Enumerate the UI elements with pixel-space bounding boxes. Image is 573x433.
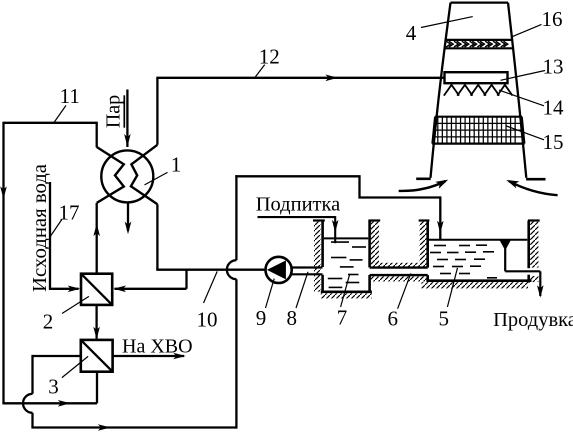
line hop over bottom pipe	[23, 394, 33, 413]
riser hop over suction pipe	[227, 260, 237, 279]
label Подпитка (makeup)	[256, 194, 341, 216]
label 17 leader	[50, 220, 62, 238]
heat exchanger U1 (boiler 1) circle	[101, 150, 153, 202]
label 7	[337, 305, 348, 329]
svg-text:10: 10	[197, 308, 218, 332]
pump 9 impeller triangle	[267, 260, 286, 279]
svg-text:13: 13	[543, 55, 564, 79]
pipe filter 3 left outlet	[33, 355, 81, 394]
label 16 leader	[512, 24, 542, 37]
label 2 leader	[62, 296, 89, 313]
label На ХВО (to water treatment)	[122, 335, 193, 357]
pipe 11 horizontal	[4, 122, 97, 124]
pipe 11 corner riser	[96, 122, 98, 148]
label 6 leader	[398, 274, 411, 309]
label 6	[388, 307, 399, 331]
tank 5 water dashes	[430, 245, 497, 278]
label 12	[259, 44, 280, 68]
label 5 leader	[447, 268, 457, 307]
pipe riser to line 12	[156, 78, 158, 145]
pipe tower basin run	[235, 176, 440, 197]
svg-text:Исходная вода: Исходная вода	[29, 164, 51, 292]
pipe На ХВО with arrow	[113, 353, 186, 360]
svg-text:2: 2	[43, 310, 54, 334]
pipe bottom run to filter 3	[2, 372, 97, 407]
label 7 leader	[341, 274, 350, 307]
label 13 leader	[501, 71, 546, 81]
pump suction pipe 10	[156, 269, 265, 271]
tank 7 right wall	[368, 221, 380, 292]
riser pipe to basin upper	[235, 175, 237, 260]
pipe to bottom run	[31, 413, 33, 428]
label Исходная вода	[29, 164, 51, 292]
label 9	[256, 306, 267, 330]
svg-text:3: 3	[48, 375, 59, 399]
pipe 8 (pump discharge, double line)	[292, 268, 323, 275]
svg-text:9: 9	[256, 306, 267, 330]
svg-text:5: 5	[438, 306, 449, 330]
svg-text:На ХВО: На ХВО	[122, 335, 193, 357]
label 1 leader	[145, 172, 168, 185]
label 14	[543, 96, 565, 120]
bottom pipe to riser	[31, 424, 236, 431]
pipe drop into tank 5 with arrow	[437, 196, 444, 239]
svg-text:6: 6	[388, 307, 399, 331]
filter F3 (square with diagonal)	[81, 340, 113, 372]
fill layer 15 (grid band)	[432, 117, 525, 144]
heat exchanger 1 left coil	[97, 147, 124, 203]
pump 9 circle	[266, 257, 292, 283]
branch tee to filter 2	[113, 270, 186, 292]
tank 5 left wall	[419, 221, 430, 282]
svg-text:1: 1	[171, 153, 182, 177]
svg-text:17: 17	[59, 201, 80, 225]
drift eliminator 16 (chevron band)	[444, 40, 513, 48]
label 8 leader	[296, 272, 308, 308]
label 15 leader	[506, 126, 544, 140]
pipe from heat exchanger SE	[156, 204, 158, 269]
svg-text:4: 4	[406, 21, 417, 45]
water distribution box 13	[445, 72, 508, 83]
tank 5 floor	[422, 281, 532, 289]
label 15	[543, 130, 564, 154]
label 13	[543, 55, 564, 79]
label 2	[43, 310, 54, 334]
pipe 11 left drop with arrow	[0, 122, 7, 404]
label 1	[171, 153, 182, 177]
svg-text:8: 8	[286, 306, 297, 330]
label 17	[59, 201, 80, 225]
svg-text:11: 11	[60, 84, 80, 108]
cooling tower right foot	[526, 178, 545, 181]
pipe filter 2 to heat exchanger (up arrow)	[93, 203, 100, 274]
source water pipe (Исходная вода)	[49, 182, 80, 292]
label 8	[286, 306, 297, 330]
pipe 12 (hot water to tower)	[156, 75, 444, 82]
channel 6 top wall	[370, 263, 428, 268]
label 3 leader	[62, 356, 88, 377]
label 9 leader	[266, 279, 275, 308]
tank 7 water surface	[324, 237, 368, 239]
label Пар underline	[123, 95, 125, 127]
label 16	[542, 7, 563, 31]
svg-text:16: 16	[542, 7, 563, 31]
air inlet arrow left	[399, 180, 449, 191]
cooling tower left foot	[416, 178, 431, 181]
air inlet arrow right	[506, 180, 557, 195]
svg-text:15: 15	[543, 130, 564, 154]
condensate outlet arrow	[125, 203, 132, 235]
svg-text:7: 7	[337, 305, 348, 329]
overflow funnel in tank 5	[501, 240, 510, 248]
filter F2 (square with diagonal)	[81, 274, 112, 305]
tank 7 water dashes	[328, 242, 366, 287]
tank 5 water surface	[429, 239, 527, 241]
label 12 leader	[255, 65, 265, 78]
steam pipe (Пар) with arrow	[124, 90, 131, 148]
label 14 leader	[499, 90, 544, 106]
label 3	[48, 375, 59, 399]
riser pipe to basin lower	[235, 279, 237, 428]
svg-text:Подпитка: Подпитка	[256, 194, 341, 216]
label Пар (steam)	[103, 95, 125, 128]
svg-text:Пар: Пар	[103, 95, 125, 128]
tank 7 left wall	[313, 221, 325, 293]
spray nozzles 14	[444, 85, 513, 96]
label 4	[406, 21, 417, 45]
label Продувка (blowdown)	[493, 309, 573, 331]
label 10	[197, 308, 218, 332]
label 11 leader	[54, 105, 66, 122]
heat exchanger 1 right coil	[131, 145, 158, 205]
pipe filter 2 to filter 3 (down arrow)	[93, 305, 100, 339]
cooling tower 4 shell	[431, 3, 527, 178]
svg-text:12: 12	[259, 44, 280, 68]
svg-text:14: 14	[543, 96, 565, 120]
tank 5 right wall	[528, 221, 540, 283]
label 11	[60, 84, 80, 108]
svg-text:Продувка: Продувка	[493, 309, 573, 331]
label 5	[438, 306, 449, 330]
blowdown pipe Продувка with arrow	[505, 249, 543, 298]
makeup pipe Подпитка with arrow	[258, 216, 339, 243]
label 4 leader	[421, 17, 473, 28]
channel 6 bottom wall	[370, 275, 428, 281]
tank 7 floor	[321, 292, 372, 299]
label 10 leader	[204, 271, 218, 303]
